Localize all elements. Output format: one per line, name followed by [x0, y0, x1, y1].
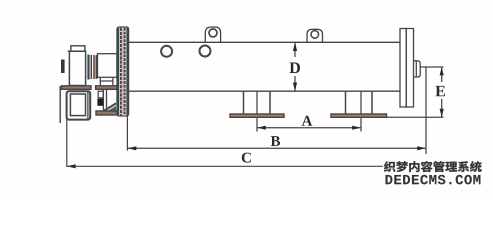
label D [290, 63, 300, 74]
dimension D line [294, 43, 296, 91]
watermark DEDECMS.COM [386, 175, 481, 184]
right saddle web [345, 91, 347, 114]
right nub nozzle [414, 61, 421, 77]
left saddle base plate [230, 114, 284, 117]
label C [242, 153, 251, 163]
dimension E reference top [420, 66, 443, 68]
motor bracket box [67, 91, 91, 119]
tubesheet flange hatched band [117, 27, 129, 116]
lifting lug 2 [307, 29, 323, 42]
label E [435, 86, 445, 96]
label B [271, 136, 280, 146]
left saddle web [243, 91, 245, 114]
lifting lug 1 [205, 27, 220, 42]
watermark Chinese glow [384, 161, 482, 172]
dimension B extension left [126, 116, 128, 151]
right flange plate 2 [406, 29, 413, 108]
shell nozzle circle 2 [200, 46, 211, 57]
dimension E arrows [440, 67, 444, 75]
shell nozzle circle 1 [161, 46, 172, 57]
dimension B line [128, 147, 426, 149]
motor body left plate [59, 86, 61, 123]
watermark Chinese text 织梦内容管理系统 [384, 161, 482, 172]
dimension A line [257, 127, 361, 129]
gusset brace [104, 103, 116, 111]
dimension E reference bottom [387, 116, 444, 118]
motor base flange bar [62, 86, 92, 90]
valve black block [97, 99, 103, 106]
bearing housing box [98, 54, 118, 78]
dimension E line [441, 67, 443, 117]
nozzle support top plate [96, 86, 120, 90]
nozzle stem [102, 89, 104, 111]
nozzle base plate [96, 111, 118, 115]
lug 2 eye hole [311, 31, 319, 39]
coupling striped band [89, 55, 97, 80]
dimension B arrows [128, 146, 137, 150]
left saddle centerline [256, 91, 258, 131]
dimension D arrows [293, 42, 297, 51]
lug 1 eye hole [209, 29, 217, 37]
dimension C arrow [67, 164, 76, 168]
motor terminal box (dark bar) [61, 60, 65, 74]
motor seam lip [68, 50, 70, 52]
motor body [69, 51, 85, 85]
dimension C extension left [66, 119, 68, 167]
dimension B extension right [425, 67, 427, 154]
dimension C line [67, 165, 448, 167]
dimension A arrows [257, 126, 266, 130]
right saddle base plate [331, 114, 387, 117]
right flange plate 1 [400, 29, 406, 108]
label A [302, 116, 313, 126]
shell top edge [129, 41, 401, 43]
bracket inner window [70, 94, 85, 116]
bracket right rib [87, 92, 89, 120]
nozzle neck [99, 78, 101, 86]
valve small box [98, 91, 103, 98]
right saddle centerline [360, 91, 362, 131]
motor top cap [71, 46, 85, 51]
shell bottom edge [129, 90, 401, 92]
